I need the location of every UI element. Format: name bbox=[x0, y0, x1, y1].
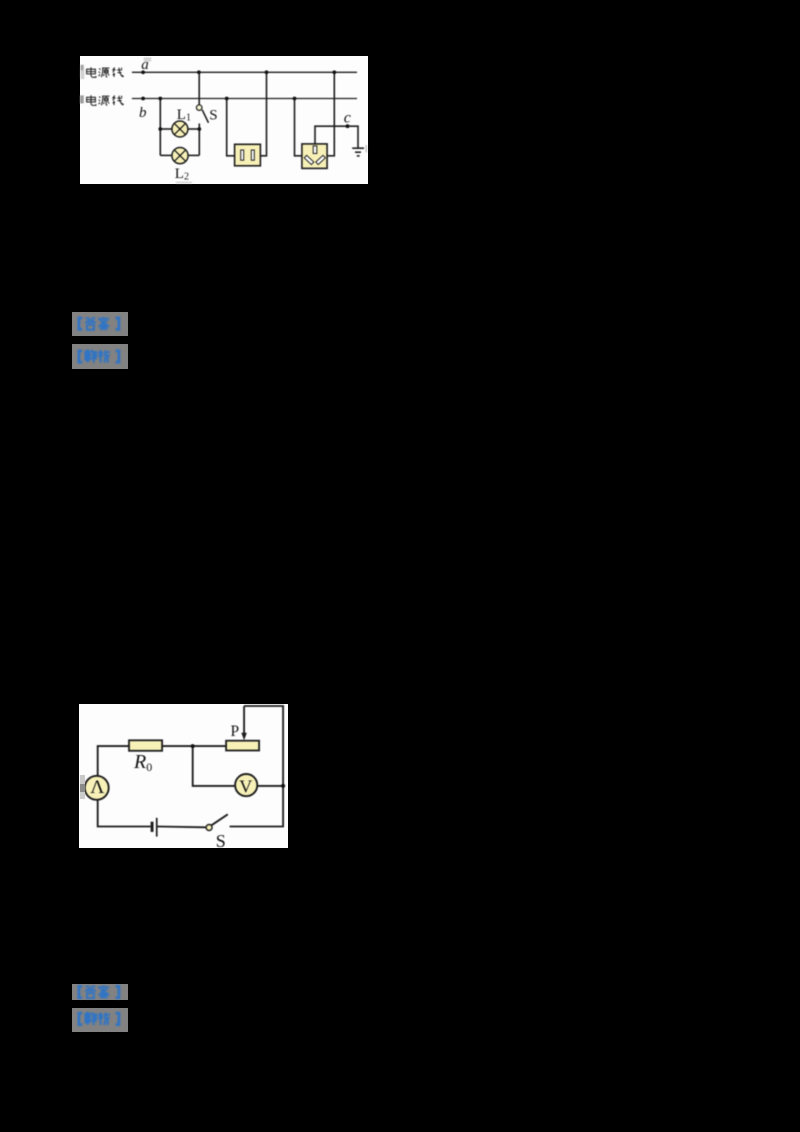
svg-text:b: b bbox=[139, 105, 147, 121]
svg-text:L2: L2 bbox=[175, 165, 189, 182]
svg-text:S: S bbox=[209, 107, 217, 123]
svg-text:P: P bbox=[231, 722, 240, 739]
svg-text:L1: L1 bbox=[177, 107, 191, 123]
svg-text:V: V bbox=[240, 776, 253, 796]
svg-text:c: c bbox=[344, 109, 351, 126]
svg-text:Λ: Λ bbox=[91, 777, 105, 798]
svg-text:R0: R0 bbox=[133, 751, 152, 774]
svg-text:S: S bbox=[216, 830, 226, 847]
